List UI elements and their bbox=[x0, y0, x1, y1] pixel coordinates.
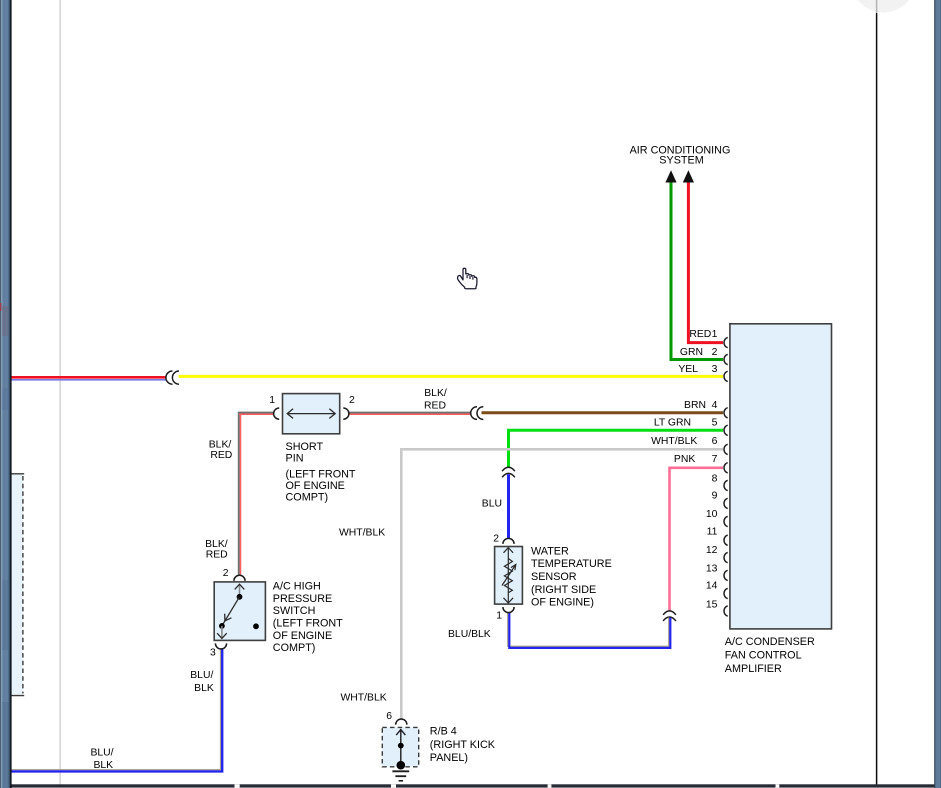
short pin terminal 1 (arc) bbox=[274, 408, 280, 419]
amplifier pin 10 bbox=[706, 509, 728, 526]
short pin component box bbox=[283, 394, 340, 434]
label BLK/RED (on vertical wire, upper) bbox=[209, 440, 233, 461]
svg-text:LT GRN: LT GRN bbox=[654, 418, 691, 429]
svg-text:1: 1 bbox=[712, 329, 718, 340]
arrowhead (RED to air conditioning system) bbox=[683, 170, 694, 182]
svg-text:BLK/: BLK/ bbox=[424, 388, 447, 399]
wire BLU down to sensor pin 2 bbox=[507, 474, 510, 539]
svg-text:3: 3 bbox=[712, 364, 718, 375]
svg-text:1: 1 bbox=[496, 610, 502, 621]
wire LT GRN: amplifier pin 5 to in-line connector above water temp sensor bbox=[509, 430, 724, 467]
svg-text:YEL: YEL bbox=[678, 364, 698, 375]
pressure switch terminal 3 arc bbox=[215, 643, 226, 649]
svg-text:BLK: BLK bbox=[194, 683, 214, 694]
A/C condenser fan control amplifier box bbox=[730, 324, 832, 629]
svg-text:5: 5 bbox=[712, 418, 718, 429]
pressure switch terminal 2 arc bbox=[234, 575, 245, 581]
svg-text:BLK/: BLK/ bbox=[205, 539, 228, 550]
short pin terminal 2 (arc) bbox=[343, 408, 349, 419]
bottom frame line with gaps bbox=[12, 784, 941, 787]
wire BLK/RED: short pin 1 down to pressure switch pin 2 bbox=[238, 412, 274, 575]
amplifier pin 11 bbox=[707, 526, 728, 545]
svg-text:(RIGHT SIDE: (RIGHT SIDE bbox=[531, 584, 596, 596]
svg-text:PIN: PIN bbox=[286, 452, 304, 464]
svg-text:2: 2 bbox=[493, 533, 499, 544]
svg-text:2: 2 bbox=[712, 347, 718, 358]
svg-text:2: 2 bbox=[349, 395, 355, 406]
svg-text:PRESSURE: PRESSURE bbox=[273, 593, 332, 605]
sensor terminal 1 arc bbox=[503, 607, 514, 613]
wire BLK/RED: short pin 2 to in-line connector bbox=[348, 413, 471, 415]
svg-text:13: 13 bbox=[706, 564, 718, 575]
amplifier pin 8 bbox=[712, 473, 728, 490]
svg-text:10: 10 bbox=[706, 509, 718, 520]
svg-text:BLU/: BLU/ bbox=[190, 670, 213, 681]
switch spare contact dot bbox=[253, 623, 259, 629]
in-line connector (double arc) LT GRN / BLU bbox=[502, 467, 515, 477]
svg-text:RED: RED bbox=[689, 329, 711, 340]
wire YEL to amplifier pin 3 bbox=[179, 375, 724, 378]
amplifier pin 13 bbox=[706, 564, 728, 581]
right sidebar strip bbox=[934, 0, 941, 788]
svg-text:BLK: BLK bbox=[93, 760, 113, 771]
svg-text:SWITCH: SWITCH bbox=[273, 605, 316, 617]
label R/B 4 (RIGHT KICK PANEL) bbox=[430, 725, 496, 764]
svg-text:GRN: GRN bbox=[680, 347, 703, 358]
wire RED/BLU (off-page left, to in-line connector) bbox=[12, 377, 167, 380]
label BLK/RED (upper, on wire to amplifier) bbox=[424, 388, 447, 412]
water temperature sensor box bbox=[495, 547, 523, 605]
svg-text:12: 12 bbox=[706, 545, 718, 556]
switch lower line with down arrow bbox=[217, 626, 227, 639]
label AIR CONDITIONING SYSTEM bbox=[630, 144, 731, 166]
svg-text:6: 6 bbox=[712, 436, 718, 447]
svg-text:FAN CONTROL: FAN CONTROL bbox=[725, 650, 802, 662]
in-line connector (double arc) PNK / BLU-BLK bbox=[663, 611, 676, 621]
amplifier pin 4 bbox=[684, 400, 728, 418]
switch junction dot (pin 3 side) bbox=[219, 623, 225, 629]
svg-text:OF ENGINE: OF ENGINE bbox=[286, 480, 345, 492]
svg-text:BRN: BRN bbox=[684, 400, 706, 411]
label BLU/BLK (vertical wire below switch) bbox=[190, 670, 214, 694]
wire WHT/BLK: amplifier pin 6 across and down to R/B 4 bbox=[401, 449, 723, 720]
svg-text:RED: RED bbox=[424, 401, 446, 412]
faded circle top right bbox=[851, 0, 916, 13]
sensor terminal 2 arc bbox=[503, 538, 514, 544]
amplifier pin 15 bbox=[706, 600, 728, 617]
amplifier pin 1 bbox=[689, 329, 727, 348]
label A/C CONDENSER FAN CONTROL AMPLIFIER bbox=[725, 636, 815, 675]
svg-text:9: 9 bbox=[712, 491, 718, 502]
svg-text:SENSOR: SENSOR bbox=[531, 571, 577, 583]
svg-text:2: 2 bbox=[223, 568, 229, 579]
svg-text:4: 4 bbox=[712, 400, 718, 411]
svg-text:COMPT): COMPT) bbox=[273, 642, 316, 654]
svg-text:A/C HIGH: A/C HIGH bbox=[273, 581, 321, 593]
svg-text:PNK: PNK bbox=[674, 454, 695, 465]
svg-text:WHT/BLK: WHT/BLK bbox=[341, 693, 387, 704]
svg-text:SYSTEM: SYSTEM bbox=[659, 155, 703, 167]
amplifier pin 14 bbox=[706, 581, 728, 599]
amplifier pin 12 bbox=[706, 545, 728, 563]
svg-text:(LEFT FRONT: (LEFT FRONT bbox=[273, 618, 343, 630]
svg-text:14: 14 bbox=[706, 581, 718, 592]
svg-text:11: 11 bbox=[707, 526, 718, 537]
label BLK/RED (on vertical wire, lower) bbox=[205, 539, 228, 561]
wire BLU/BLK: pressure switch pin 3 down and left off-page (two-tone) bbox=[12, 648, 223, 771]
switch contact: upper line with up arrow bbox=[235, 584, 245, 597]
amplifier pin 9 bbox=[712, 491, 728, 509]
in-line connector (( before BRN wire bbox=[471, 407, 484, 420]
amplifier pin 3 bbox=[678, 364, 727, 382]
svg-text:15: 15 bbox=[706, 600, 718, 611]
switch blade (diagonal) with arrowhead bbox=[222, 597, 240, 626]
svg-text:1: 1 bbox=[269, 395, 275, 406]
svg-text:BLU/BLK: BLU/BLK bbox=[448, 629, 491, 640]
A/C high pressure switch box bbox=[214, 582, 265, 641]
amplifier pin 6 bbox=[651, 436, 728, 454]
svg-text:WHT/BLK: WHT/BLK bbox=[339, 528, 385, 539]
left sidebar (minimap strip) bbox=[0, 0, 12, 788]
R/B 4 junction dot bbox=[398, 743, 404, 749]
R/B 4 box (dashed) bbox=[382, 727, 418, 766]
svg-text:PANEL): PANEL) bbox=[430, 752, 468, 764]
svg-text:3: 3 bbox=[210, 647, 216, 658]
svg-text:TEMPERATURE: TEMPERATURE bbox=[531, 558, 612, 570]
svg-text:AMPLIFIER: AMPLIFIER bbox=[725, 663, 782, 675]
svg-text:COMPT): COMPT) bbox=[286, 491, 329, 503]
amplifier pin 5 bbox=[654, 418, 728, 436]
label BLU/BLK (bottom horizontal wire) bbox=[90, 747, 113, 771]
svg-text:6: 6 bbox=[386, 711, 392, 722]
svg-text:WHT/BLK: WHT/BLK bbox=[651, 436, 697, 447]
wire BRN to amplifier pin 4 bbox=[482, 411, 724, 414]
svg-text:BLU: BLU bbox=[482, 498, 502, 509]
thermistor symbol inside sensor bbox=[502, 548, 516, 604]
wire BLU/BLK: sensor pin 1 to in-line connector (two-tone) bbox=[508, 612, 671, 648]
wire RED: amplifier pin 1 up to A/C system arrow bbox=[688, 182, 723, 343]
svg-text:A/C CONDENSER: A/C CONDENSER bbox=[725, 636, 815, 648]
amplifier pin 2 bbox=[680, 347, 728, 365]
svg-text:7: 7 bbox=[712, 454, 718, 465]
label SHORT PIN (LEFT FRONT OF ENGINE COMPT) bbox=[286, 441, 356, 503]
label A/C HIGH PRESSURE SWITCH (LEFT FRONT OF ENGINE COMPT) bbox=[273, 581, 343, 655]
mouse hand cursor bbox=[458, 268, 477, 288]
R/B 4 terminal 6 arc bbox=[396, 719, 407, 725]
short pin internal double arrow bbox=[287, 409, 335, 419]
svg-text:RED: RED bbox=[210, 450, 232, 461]
R/B 4 ground dot bbox=[397, 761, 406, 770]
right frame line (black) bbox=[876, 0, 878, 785]
svg-text:OF ENGINE): OF ENGINE) bbox=[531, 597, 594, 609]
wire PNK: amplifier pin 7 across and down to in-line connector bbox=[670, 468, 724, 612]
in-line connector (( at left of YEL wire bbox=[166, 371, 179, 384]
svg-text:RED: RED bbox=[206, 550, 228, 561]
wire GRN: amplifier pin 2 up to A/C system arrow bbox=[671, 182, 723, 360]
svg-text:OF ENGINE: OF ENGINE bbox=[273, 630, 332, 642]
column separator line (light gray) bbox=[59, 0, 61, 785]
partially visible dashed component (left edge) bbox=[8, 474, 24, 696]
svg-text:SHORT: SHORT bbox=[286, 441, 324, 453]
svg-text:8: 8 bbox=[712, 473, 718, 484]
label WATER TEMPERATURE SENSOR (RIGHT SIDE OF ENGINE) bbox=[531, 545, 612, 608]
switch junction dot (pin 2 side) bbox=[237, 594, 243, 600]
svg-text:(RIGHT KICK: (RIGHT KICK bbox=[430, 739, 496, 751]
svg-text:(LEFT FRONT: (LEFT FRONT bbox=[286, 468, 356, 480]
svg-text:BLU/: BLU/ bbox=[90, 747, 113, 758]
amplifier pin 7 bbox=[674, 454, 728, 473]
ground symbol bbox=[392, 771, 409, 781]
R/B 4 internal line with up arrow bbox=[396, 729, 405, 765]
arrowhead (GRN to air conditioning system) bbox=[665, 170, 676, 182]
svg-text:WATER: WATER bbox=[531, 545, 569, 557]
svg-text:R/B 4: R/B 4 bbox=[430, 725, 457, 737]
